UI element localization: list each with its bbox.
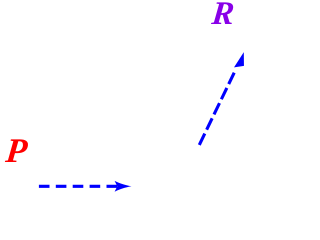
arrowhead of horizontal vector <box>115 181 132 192</box>
node P label <box>4 132 29 171</box>
wire: horizontal dashed vector from P <box>39 185 118 188</box>
wire: diagonal dashed vector to R <box>199 73 234 145</box>
node R label <box>210 0 236 33</box>
arrowhead of diagonal vector <box>234 52 244 67</box>
